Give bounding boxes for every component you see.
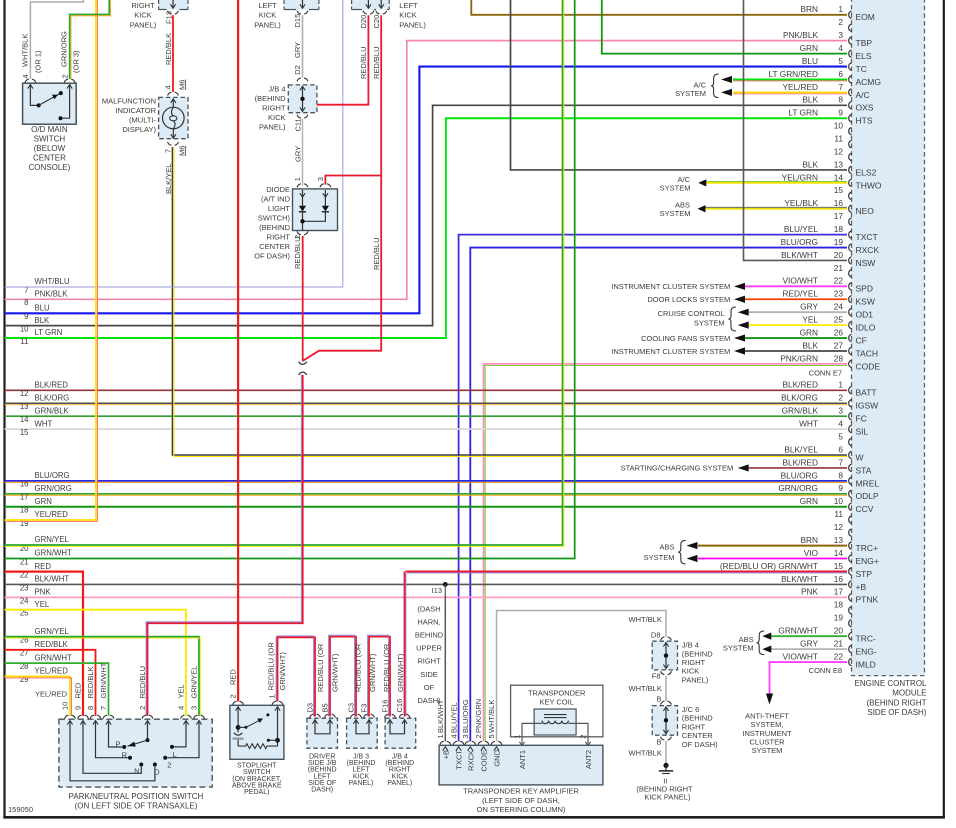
svg-text:CODE: CODE: [856, 361, 881, 371]
ABS system label rowsE8-20/21: [723, 631, 764, 655]
svg-text:2: 2: [838, 393, 843, 403]
svg-text:PANEL): PANEL): [349, 780, 374, 787]
svg-text:PNK/GRN: PNK/GRN: [474, 699, 483, 733]
svg-text:PNK: PNK: [801, 587, 819, 597]
svg-text:WHT/BLK: WHT/BLK: [629, 749, 662, 758]
svg-text:CLUSTER: CLUSTER: [749, 737, 785, 746]
ECM conn E7 pin 14 THWO: [782, 172, 882, 190]
svg-text:OF DASH): OF DASH): [682, 740, 718, 749]
svg-text:BLU: BLU: [802, 56, 818, 66]
svg-text:D15: D15: [293, 14, 302, 28]
svg-text:17: 17: [834, 211, 844, 221]
svg-text:RED/BLU (OR: RED/BLU (OR: [353, 643, 362, 692]
svg-text:SYSTEM: SYSTEM: [660, 184, 691, 193]
svg-text:ELS: ELS: [856, 51, 872, 61]
transponder ANT pin name labels: [518, 750, 593, 769]
J/B4 bottom caption: [385, 754, 414, 787]
svg-text:3: 3: [838, 30, 843, 40]
svg-text:SWITCH): SWITCH): [258, 213, 291, 222]
wire RED/BLU stoplight pin1 riser: [266, 637, 287, 702]
svg-text:GRN/ORG: GRN/ORG: [60, 31, 69, 67]
svg-text:F16: F16: [381, 700, 390, 713]
svg-text:F3: F3: [360, 704, 369, 713]
svg-text:DASH): DASH): [311, 787, 333, 794]
svg-text:1: 1: [267, 694, 276, 698]
ECM conn E7 pin 21: [834, 263, 852, 277]
svg-text:KSW: KSW: [856, 297, 875, 307]
svg-text:1: 1: [838, 380, 843, 390]
svg-text:GRN: GRN: [35, 497, 52, 506]
wire W27 RED/BLK left edge to park/neutral pin8: [5, 650, 96, 716]
RED/BLU (OR GRN/WHT) rotated labels bottom: [316, 643, 405, 692]
svg-text:10: 10: [834, 496, 844, 506]
svg-text:DIODE: DIODE: [266, 185, 290, 194]
svg-text:SYSTEM: SYSTEM: [752, 746, 783, 755]
wire YEL/GRN E7 pin14 THWO to A/C system: [660, 175, 847, 193]
svg-text:RED/BLU: RED/BLU: [293, 236, 302, 269]
svg-text:GRN/YEL: GRN/YEL: [190, 666, 199, 699]
svg-text:STARTING/CHARGING SYSTEM: STARTING/CHARGING SYSTEM: [621, 464, 734, 473]
svg-text:RED/BLU (OR: RED/BLU (OR: [316, 643, 325, 692]
svg-text:OD1: OD1: [856, 310, 874, 320]
svg-text:28: 28: [834, 353, 844, 363]
svg-text:3: 3: [316, 177, 325, 181]
svg-text:16: 16: [20, 480, 29, 489]
wire LT GRN/RED E7 pin6 ACMG to A/C system: [721, 76, 847, 83]
wire VIO/WHT E8 pin22 IMLD to anti-theft system: [766, 662, 847, 704]
svg-text:P: P: [115, 739, 120, 748]
O/D switch pin 2 connector: [64, 79, 75, 88]
junction block J/B4 (D8/F8) box: [652, 641, 677, 670]
ECM conn E8 pin 19: [834, 613, 852, 627]
svg-text:GRN/WHT): GRN/WHT): [368, 653, 377, 692]
svg-text:BLK/RED: BLK/RED: [35, 381, 69, 390]
svg-text:13: 13: [834, 159, 844, 169]
svg-text:GRN: GRN: [800, 496, 818, 506]
svg-text:ELS2: ELS2: [856, 167, 877, 177]
wire WHT/BLK to ground II: [629, 741, 667, 765]
wire GRN/ORG O/D pin2 to top: [70, 0, 111, 79]
O/D switch wire labels: [21, 31, 81, 79]
wire BLK/RED E8 pin7 STA to starting/charging system: [621, 464, 847, 473]
ECM conn E8 pin 20 TRC-: [778, 626, 876, 644]
svg-text:GND: GND: [493, 749, 502, 766]
svg-text:BLK/WHT: BLK/WHT: [35, 575, 70, 584]
svg-text:INSTRUMENT: INSTRUMENT: [742, 729, 792, 738]
wire W17 GRN/ORG left edge to E8 pin9 ODLP: [5, 494, 848, 496]
svg-text:PNK/GRN: PNK/GRN: [780, 353, 818, 363]
stoplight switch S3 box: [230, 705, 284, 759]
wire W14 GRN/BLK left edge to E8 pin3 FC: [5, 415, 848, 417]
ECM conn E7 pin 20 NSW: [781, 250, 875, 268]
ECM conn E8 pin 12: [834, 522, 852, 536]
svg-text:ANT1: ANT1: [518, 750, 527, 769]
wire BRN to E7 pin1 EOM: [471, 0, 847, 15]
svg-text:PANEL): PANEL): [682, 675, 709, 684]
wire GRY C11 to diode pin1: [293, 119, 302, 186]
left edge wire number and color labels: [20, 277, 72, 684]
ECM conn E7 pin 7 A/C: [782, 82, 869, 100]
svg-text:BLK: BLK: [35, 316, 51, 325]
connector box C caption: [399, 1, 426, 29]
svg-text:BEHIND: BEHIND: [415, 631, 444, 640]
svg-text:M6: M6: [177, 146, 186, 156]
svg-text:12: 12: [834, 146, 844, 156]
svg-text:YEL/BLK: YEL/BLK: [784, 198, 818, 208]
svg-text:GRN/WHT): GRN/WHT): [278, 652, 287, 691]
svg-text:TBP: TBP: [856, 38, 873, 48]
svg-text:C20: C20: [372, 15, 381, 29]
svg-text:TXCT: TXCT: [856, 232, 878, 242]
svg-text:TRC+: TRC+: [856, 543, 878, 553]
svg-text:2: 2: [474, 734, 483, 738]
wire BLU/ORG E7 pin19 RXCK riser to transponder: [470, 248, 847, 742]
svg-text:4: 4: [164, 85, 173, 89]
ECM conn E8 pin 3 FC: [782, 406, 867, 424]
wire WHT/BLK F8 to J/C6 B: [629, 676, 667, 702]
svg-text:BLU: BLU: [35, 304, 51, 313]
svg-text:15: 15: [834, 185, 844, 195]
svg-text:WHT/BLK: WHT/BLK: [487, 700, 496, 733]
wire W12 BLK/RED left edge to E8 pin1 BATT: [5, 389, 848, 391]
svg-text:WHT/BLK: WHT/BLK: [629, 684, 662, 693]
driver side J/B caption: [308, 754, 337, 794]
svg-text:SIDE: SIDE: [420, 670, 438, 679]
svg-text:TRANSPONDER KEY AMPLIFIER: TRANSPONDER KEY AMPLIFIER: [463, 787, 579, 796]
svg-text:RIGHT: RIGHT: [682, 722, 706, 731]
svg-text:18: 18: [20, 506, 29, 515]
svg-text:SIL: SIL: [856, 427, 869, 437]
svg-text:SYSTEM: SYSTEM: [675, 89, 706, 98]
wire PNK/GRN E7 pin28 CODE riser to transponder: [484, 364, 848, 742]
wire BLU/YEL E7 pin18 TXCT riser to transponder: [459, 235, 847, 742]
A/C system label rows6-7: [675, 74, 718, 98]
svg-text:CENTER: CENTER: [682, 731, 713, 740]
wire W15 WHT left edge to E8 pin4 SIL: [5, 428, 848, 430]
wire GRY E7 pin24 OD1 to cruise control: [738, 309, 847, 316]
svg-text:(BEHIND: (BEHIND: [259, 223, 290, 232]
svg-text:8: 8: [838, 470, 843, 480]
wire RED/BLU to park/neutral pin2: [146, 375, 303, 716]
svg-text:D20: D20: [359, 15, 368, 29]
svg-text:GRY: GRY: [800, 639, 818, 649]
wire RED/BLU D20 to J/B4 side: [317, 15, 369, 105]
svg-text:22: 22: [834, 276, 844, 286]
svg-text:1: 1: [293, 177, 302, 181]
svg-text:4: 4: [838, 419, 843, 429]
ECM conn E7 pin 1 EOM: [800, 4, 874, 22]
wire RED/BLU riser B5 bridge to C3: [329, 635, 356, 716]
svg-text:26: 26: [834, 327, 844, 337]
svg-text:12: 12: [834, 522, 844, 532]
ECM conn E7 pin 6 ACMG: [769, 69, 881, 87]
svg-text:PARK/NEUTRAL POSITION SWITCH: PARK/NEUTRAL POSITION SWITCH: [69, 792, 204, 801]
ECM conn E8 pin 9 ODLP: [778, 483, 879, 501]
svg-text:GRN/WHT: GRN/WHT: [35, 549, 72, 558]
svg-text:IGSW: IGSW: [856, 401, 879, 411]
svg-text:RED/BLU (OR: RED/BLU (OR: [266, 642, 275, 691]
svg-text:TC: TC: [856, 64, 867, 74]
ECM conn E7 pin 22 SPD: [783, 276, 873, 294]
wire W13 BLK/ORG left edge to E8 pin2 IGSW: [5, 403, 848, 405]
ECM conn E7 pin 8 OXS: [802, 95, 873, 113]
svg-text:BLK/YEL: BLK/YEL: [164, 164, 173, 194]
wire W26 GRN/YEL left edge to park/neutral pin3: [5, 637, 201, 716]
svg-text:+B: +B: [856, 582, 867, 592]
svg-text:C3: C3: [347, 703, 356, 713]
transponder key amplifier caption: [463, 787, 579, 815]
svg-text:(BEHIND: (BEHIND: [682, 714, 713, 723]
ECM conn E7 pin 17: [834, 211, 852, 225]
svg-text:CRUISE CONTROL: CRUISE CONTROL: [658, 309, 725, 318]
svg-text:HTS: HTS: [856, 116, 873, 126]
svg-text:COOLING FANS SYSTEM: COOLING FANS SYSTEM: [641, 334, 730, 343]
svg-text:KICK: KICK: [134, 11, 152, 20]
svg-text:YEL/RED: YEL/RED: [35, 510, 69, 519]
svg-text:WHT/BLK: WHT/BLK: [629, 615, 662, 624]
ground II caption: [636, 777, 693, 802]
svg-text:GRN/BLK: GRN/BLK: [35, 406, 70, 415]
wire RED/BLU diode pin2 descender: [302, 236, 304, 361]
svg-text:GRY: GRY: [800, 302, 818, 312]
svg-text:5: 5: [487, 734, 496, 738]
svg-text:17: 17: [834, 587, 844, 597]
ECM conn E7 pin 15: [834, 185, 852, 199]
svg-text:2: 2: [838, 17, 843, 27]
ECM conn E7 pin 18 TXCT: [784, 224, 878, 242]
ECM caption text: [854, 679, 927, 717]
wire YEL/BLK E7 pin16 NEO to ABS system: [660, 201, 847, 219]
svg-text:BLK/WHT: BLK/WHT: [781, 574, 818, 584]
svg-text:BLK: BLK: [802, 340, 818, 350]
connector D2 of J/B4: [293, 65, 308, 81]
wire BLK/WHT I13 branch to transponder +B: [444, 596, 446, 742]
svg-text:GRN/WHT): GRN/WHT): [331, 653, 340, 692]
wire RED/YEL E7 pin23 KSW to door locks: [647, 295, 847, 304]
ECM conn E7 pin 2: [838, 17, 851, 31]
wire W20 GRN/YEL left edge riser to top: [5, 0, 564, 547]
svg-text:TXCT: TXCT: [455, 750, 464, 770]
junction block J/B4 (D2/C11) box: [288, 85, 317, 113]
svg-text:(BEHIND RIGHT: (BEHIND RIGHT: [867, 698, 927, 707]
J/B3 caption: [347, 754, 376, 787]
svg-text:21: 21: [834, 639, 844, 649]
svg-text:CONSOLE): CONSOLE): [29, 163, 71, 172]
diode internals: [299, 190, 329, 231]
svg-text:VIO: VIO: [804, 548, 819, 558]
wire W8 PNK/BLK left edge to E7 pin3 TBP: [5, 41, 848, 300]
svg-text:BLK: BLK: [802, 95, 818, 105]
svg-text:YEL: YEL: [177, 684, 186, 698]
svg-text:(DASH: (DASH: [417, 605, 440, 614]
svg-text:13: 13: [834, 535, 844, 545]
wire W22 RED left edge to park/neutral pin9: [5, 572, 84, 716]
ECM conn E8 pin 6 W: [784, 444, 863, 462]
svg-text:WHT: WHT: [799, 419, 818, 429]
svg-text:(MULTI-: (MULTI-: [129, 116, 156, 125]
svg-text:19: 19: [834, 613, 844, 623]
svg-text:GRN/WHT: GRN/WHT: [778, 626, 818, 636]
svg-text:ACMG: ACMG: [856, 77, 882, 87]
wire BLK/WHT from top to E7 pin20 NSW: [744, 0, 848, 260]
wire VIO E8 pin14 ENG+ to ABS system: [687, 555, 848, 562]
transponder key coil outer box: [511, 685, 603, 737]
ECM conn E7 pin 3 TBP: [783, 30, 872, 48]
junction I13 on +B wire: [432, 582, 448, 596]
wire VIO/WHT E7 pin22 SPD to instrument cluster: [611, 282, 847, 291]
svg-text:4: 4: [21, 74, 30, 78]
svg-text:KICK: KICK: [682, 667, 700, 676]
wire WHT/BLK GND to J/B4 D8: [497, 611, 667, 742]
wire YEL E7 pin25 IDLO to cruise control: [738, 322, 847, 329]
O/D switch internal contacts: [30, 84, 69, 120]
ECM conn E7 pin 5 TC: [802, 56, 867, 74]
svg-text:RIGHT: RIGHT: [417, 657, 441, 666]
svg-text:2: 2: [167, 761, 171, 770]
svg-text:CF: CF: [856, 335, 867, 345]
svg-text:J/C 6: J/C 6: [682, 705, 700, 714]
svg-text:RIGHT: RIGHT: [682, 658, 706, 667]
ECM conn E8 pin 14 ENG+: [804, 548, 879, 566]
svg-text:BLK/WHT: BLK/WHT: [781, 250, 818, 260]
svg-text:THWO: THWO: [856, 180, 882, 190]
svg-text:DOOR LOCKS SYSTEM: DOOR LOCKS SYSTEM: [647, 295, 730, 304]
wire RED/BLU riser C16 to E8 pin15 STP: [405, 571, 406, 716]
svg-text:BLU/ORG: BLU/ORG: [781, 237, 818, 247]
ECM conn E8 pin 8 MREL: [781, 470, 880, 488]
stoplight switch caption: [232, 763, 282, 796]
svg-text:ENG+: ENG+: [856, 556, 879, 566]
svg-text:IDLO: IDLO: [856, 323, 876, 333]
connector D15: [293, 11, 308, 28]
svg-text:SIDE OF DASH): SIDE OF DASH): [867, 708, 926, 717]
junction block J/C6 caption: [682, 705, 718, 749]
svg-text:BLK/WHT: BLK/WHT: [436, 699, 445, 733]
svg-text:RED/BLK: RED/BLK: [35, 640, 69, 649]
svg-text:PNK: PNK: [35, 588, 52, 597]
svg-text:BLU/ORG: BLU/ORG: [781, 470, 818, 480]
wire W21 GRN/WHT left edge riser to top: [5, 0, 575, 559]
svg-text:OF DASH): OF DASH): [254, 251, 290, 260]
svg-text:J/B 4: J/B 4: [682, 641, 699, 650]
svg-text:21: 21: [834, 263, 844, 273]
wire RED/BLU bridge stoplight to D3: [276, 636, 315, 717]
svg-text:HARN,: HARN,: [417, 618, 440, 627]
diode pin3 connector: [316, 177, 331, 187]
svg-text:TACH: TACH: [856, 348, 879, 358]
svg-text:MALFUNCTION: MALFUNCTION: [102, 97, 156, 106]
wire YEL/RED E7 pin7 A/C to A/C system: [721, 89, 847, 96]
inline connector on RED/BLU wire: [299, 362, 307, 375]
svg-text:SYSTEM: SYSTEM: [723, 643, 754, 652]
svg-text:23: 23: [20, 583, 29, 592]
ECM conn E8 pin 1 BATT: [782, 380, 876, 398]
svg-text:(A/T IND: (A/T IND: [261, 194, 291, 203]
svg-text:GRN/YEL: GRN/YEL: [35, 535, 70, 544]
svg-text:TRC-: TRC-: [856, 634, 876, 644]
svg-text:+B: +B: [441, 750, 450, 759]
svg-text:PNK/BLK: PNK/BLK: [35, 290, 69, 299]
svg-text:MREL: MREL: [856, 478, 880, 488]
svg-text:RIGHT: RIGHT: [267, 232, 291, 241]
wire GRY D15 to J/B4: [293, 15, 303, 77]
svg-text:CCV: CCV: [856, 504, 874, 514]
svg-text:SYSTEM: SYSTEM: [660, 209, 691, 218]
svg-text:17: 17: [20, 493, 29, 502]
svg-text:16: 16: [834, 574, 844, 584]
svg-text:25: 25: [834, 315, 844, 325]
transponder riser wire labels: [436, 699, 496, 733]
svg-text:RED/BLU: RED/BLU: [138, 666, 147, 699]
svg-text:15: 15: [834, 561, 844, 571]
svg-text:11: 11: [834, 509, 843, 519]
svg-text:SWITCH: SWITCH: [34, 135, 66, 144]
svg-text:20: 20: [834, 250, 844, 260]
svg-text:LIGHT: LIGHT: [268, 204, 291, 213]
svg-text:27: 27: [834, 340, 844, 350]
svg-text:LT GRN/RED: LT GRN/RED: [769, 69, 818, 79]
svg-text:18: 18: [834, 600, 844, 610]
park/neutral switch rotated wire labels: [74, 662, 199, 698]
wire WHT/BLK O/D pin4 to top: [30, 0, 83, 79]
svg-text:LT GRN: LT GRN: [788, 108, 818, 118]
svg-text:YEL/RED: YEL/RED: [782, 82, 818, 92]
svg-text:NEO: NEO: [856, 206, 875, 216]
wire W29 YEL/RED left edge to park/neutral pin10: [5, 676, 72, 716]
wire W24 PNK left edge to E8 pin17 PTNK: [5, 596, 848, 598]
svg-text:ON STEERING COLUMN): ON STEERING COLUMN): [477, 805, 566, 814]
wire RED stoplight pin2 from top: [229, 0, 238, 702]
junction block J/B4 (F16/C16): [381, 699, 416, 748]
svg-text:WHT/BLK: WHT/BLK: [21, 34, 30, 67]
connector D20: [359, 11, 374, 29]
svg-text:ABS: ABS: [659, 542, 674, 551]
svg-text:4: 4: [177, 706, 186, 710]
svg-text:GRN/WHT: GRN/WHT: [35, 653, 72, 662]
svg-text:ODLP: ODLP: [856, 491, 879, 501]
ECM conn E7 pin 13 ELS2: [802, 159, 876, 177]
diode caption: [254, 185, 290, 260]
svg-text:PNK/BLK: PNK/BLK: [783, 30, 819, 40]
ECM conn E8 pin 18: [834, 600, 852, 614]
svg-text:14: 14: [20, 415, 29, 424]
ECM conn E8 pin 5: [838, 431, 851, 445]
connector D8: [651, 630, 671, 640]
svg-text:TRANSPONDER: TRANSPONDER: [528, 689, 586, 698]
ECM conn E8 pin 21 ENG-: [800, 639, 877, 657]
svg-text:ENG-: ENG-: [856, 647, 877, 657]
svg-text:SYSTEM,: SYSTEM,: [751, 720, 784, 729]
svg-text:GRY: GRY: [293, 146, 302, 162]
svg-text:I13: I13: [432, 586, 442, 595]
wire GRN E7 pin26 CF to cooling fans: [641, 334, 847, 343]
svg-text:YEL: YEL: [35, 600, 50, 609]
malfunction indicator bulb: [163, 99, 185, 139]
svg-text:16: 16: [834, 198, 844, 208]
svg-text:11: 11: [20, 337, 28, 346]
ECM conn E8 pin 15 STP: [720, 561, 873, 579]
ECM conn E7 pin 28 CODE: [780, 353, 880, 371]
svg-text:CENTER: CENTER: [33, 154, 66, 163]
svg-text:(OR 3): (OR 3): [72, 50, 81, 73]
ground II symbol: [659, 763, 673, 774]
svg-text:A/C: A/C: [856, 90, 870, 100]
svg-text:9: 9: [838, 108, 843, 118]
svg-text:BLU/YEL: BLU/YEL: [449, 702, 458, 733]
junction block driver side J/B (D3/B5): [306, 703, 338, 748]
transponder key coil L1 inner box: [534, 709, 576, 735]
svg-text:UPPER: UPPER: [416, 644, 442, 653]
